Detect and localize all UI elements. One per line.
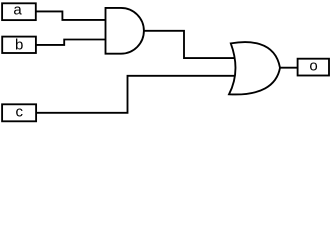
- or gate U2: [229, 42, 280, 94]
- svg-text:o: o: [309, 57, 317, 74]
- svg-text:a: a: [13, 1, 22, 18]
- input port box a: [2, 3, 36, 20]
- output port box o: [298, 59, 329, 76]
- input port box b: [2, 37, 36, 53]
- wire AND output: [143, 31, 237, 58]
- svg-text:c: c: [16, 104, 24, 121]
- wire o: [279, 67, 299, 69]
- svg-text:b: b: [15, 36, 23, 53]
- wire c: [36, 76, 237, 113]
- and gate U1: [106, 8, 144, 54]
- input port box c: [2, 104, 36, 121]
- wire b: [36, 40, 106, 45]
- wire a: [36, 11, 106, 20]
